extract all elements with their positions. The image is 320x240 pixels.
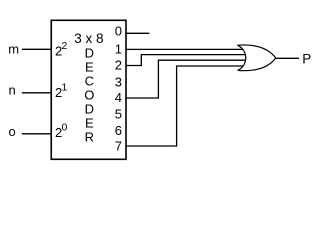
- svg-text:2: 2: [115, 58, 122, 73]
- svg-text:5: 5: [115, 107, 122, 122]
- svg-text:3 x 8: 3 x 8: [74, 31, 103, 46]
- svg-text:D: D: [85, 101, 94, 116]
- svg-text:4: 4: [115, 90, 122, 105]
- svg-text:7: 7: [115, 139, 122, 154]
- svg-text:E: E: [85, 115, 94, 130]
- svg-text:P: P: [302, 51, 311, 66]
- svg-text:2: 2: [62, 40, 68, 52]
- svg-text:6: 6: [115, 123, 122, 138]
- svg-text:D: D: [85, 45, 94, 60]
- svg-text:E: E: [85, 59, 94, 74]
- svg-text:R: R: [85, 129, 94, 144]
- svg-text:3: 3: [115, 75, 122, 90]
- svg-text:o: o: [9, 124, 16, 139]
- svg-text:n: n: [9, 83, 16, 98]
- svg-text:1: 1: [62, 82, 68, 94]
- svg-text:m: m: [8, 41, 19, 56]
- svg-text:0: 0: [62, 122, 68, 134]
- svg-text:1: 1: [115, 42, 122, 57]
- svg-text:0: 0: [115, 23, 122, 38]
- svg-text:C: C: [85, 73, 94, 88]
- svg-text:O: O: [84, 87, 94, 102]
